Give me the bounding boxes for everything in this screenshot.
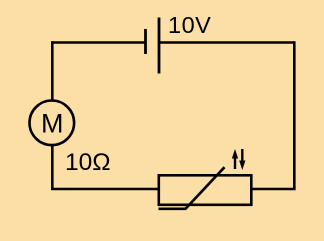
wire: thermistor right to bottom-right corner xyxy=(252,188,296,191)
wire: top-left horizontal (battery negative to left corner) xyxy=(52,41,145,44)
wire: right vertical xyxy=(293,41,296,189)
battery cell: short plate (negative) xyxy=(144,29,147,54)
arrow up (increase) xyxy=(234,157,236,169)
svg-text:10V: 10V xyxy=(168,12,211,38)
battery cell: long plate (positive) xyxy=(158,18,161,74)
motor M1: circle xyxy=(30,101,75,146)
wire: motor bottom to bottom-left corner and right to thermistor xyxy=(52,146,158,189)
thermistor RT1: diagonal stroke with foot xyxy=(159,167,225,209)
wire: top-right horizontal (battery positive to right corner) xyxy=(159,41,294,44)
thermistor RT1: body rectangle xyxy=(159,175,252,205)
svg-text:M: M xyxy=(41,109,64,139)
svg-text:10Ω: 10Ω xyxy=(65,149,111,176)
wire: left vertical down to motor xyxy=(51,41,54,100)
arrow down (decrease) xyxy=(241,149,243,161)
